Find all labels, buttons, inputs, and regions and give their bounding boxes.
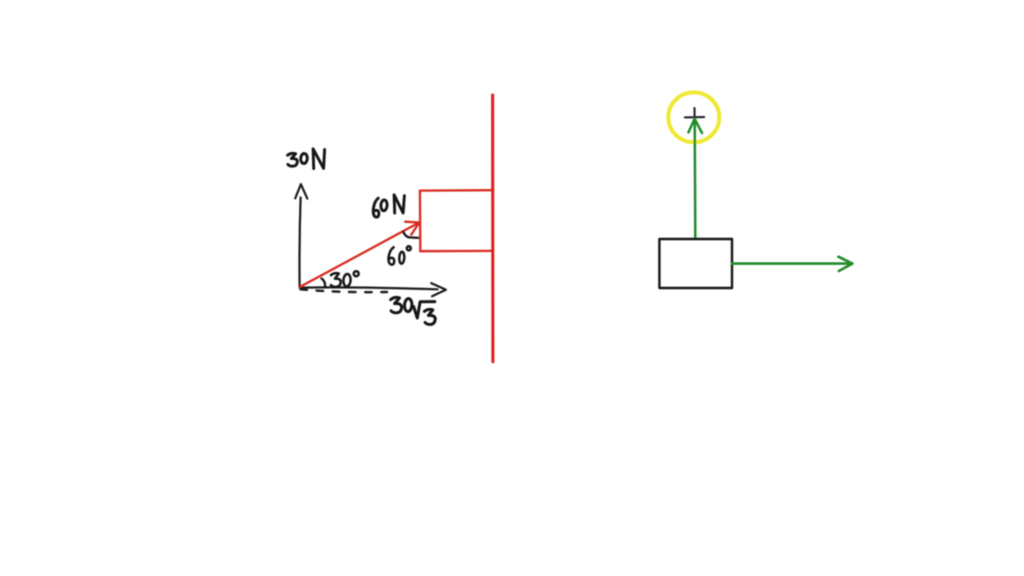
label 30sqrt3: [391, 297, 436, 324]
label 30deg: [331, 271, 359, 287]
horizontal axis arrow (black, pointing right): [300, 283, 446, 296]
label 60deg: [388, 246, 410, 264]
green vertical arrow from box to circle: [689, 119, 703, 239]
yellow circle highlight: [668, 92, 719, 142]
red wall line: [491, 95, 494, 362]
60 degree angle bracket at arrow tip: [403, 232, 418, 238]
black box (free body): [659, 239, 732, 288]
red block attached to wall: [420, 190, 493, 251]
vertical force axis arrow (30N, black, pointing up): [295, 184, 307, 287]
black cross mark in circle: [685, 108, 704, 125]
green horizontal arrow from box to the right: [732, 257, 852, 271]
label 30N: [288, 149, 325, 169]
dashed horizontal line under axis: [301, 289, 388, 292]
30 degree angle arc at origin: [322, 278, 326, 287]
label 60 N: [373, 195, 404, 217]
red force arrow 60N at 30 degrees: [300, 222, 419, 287]
